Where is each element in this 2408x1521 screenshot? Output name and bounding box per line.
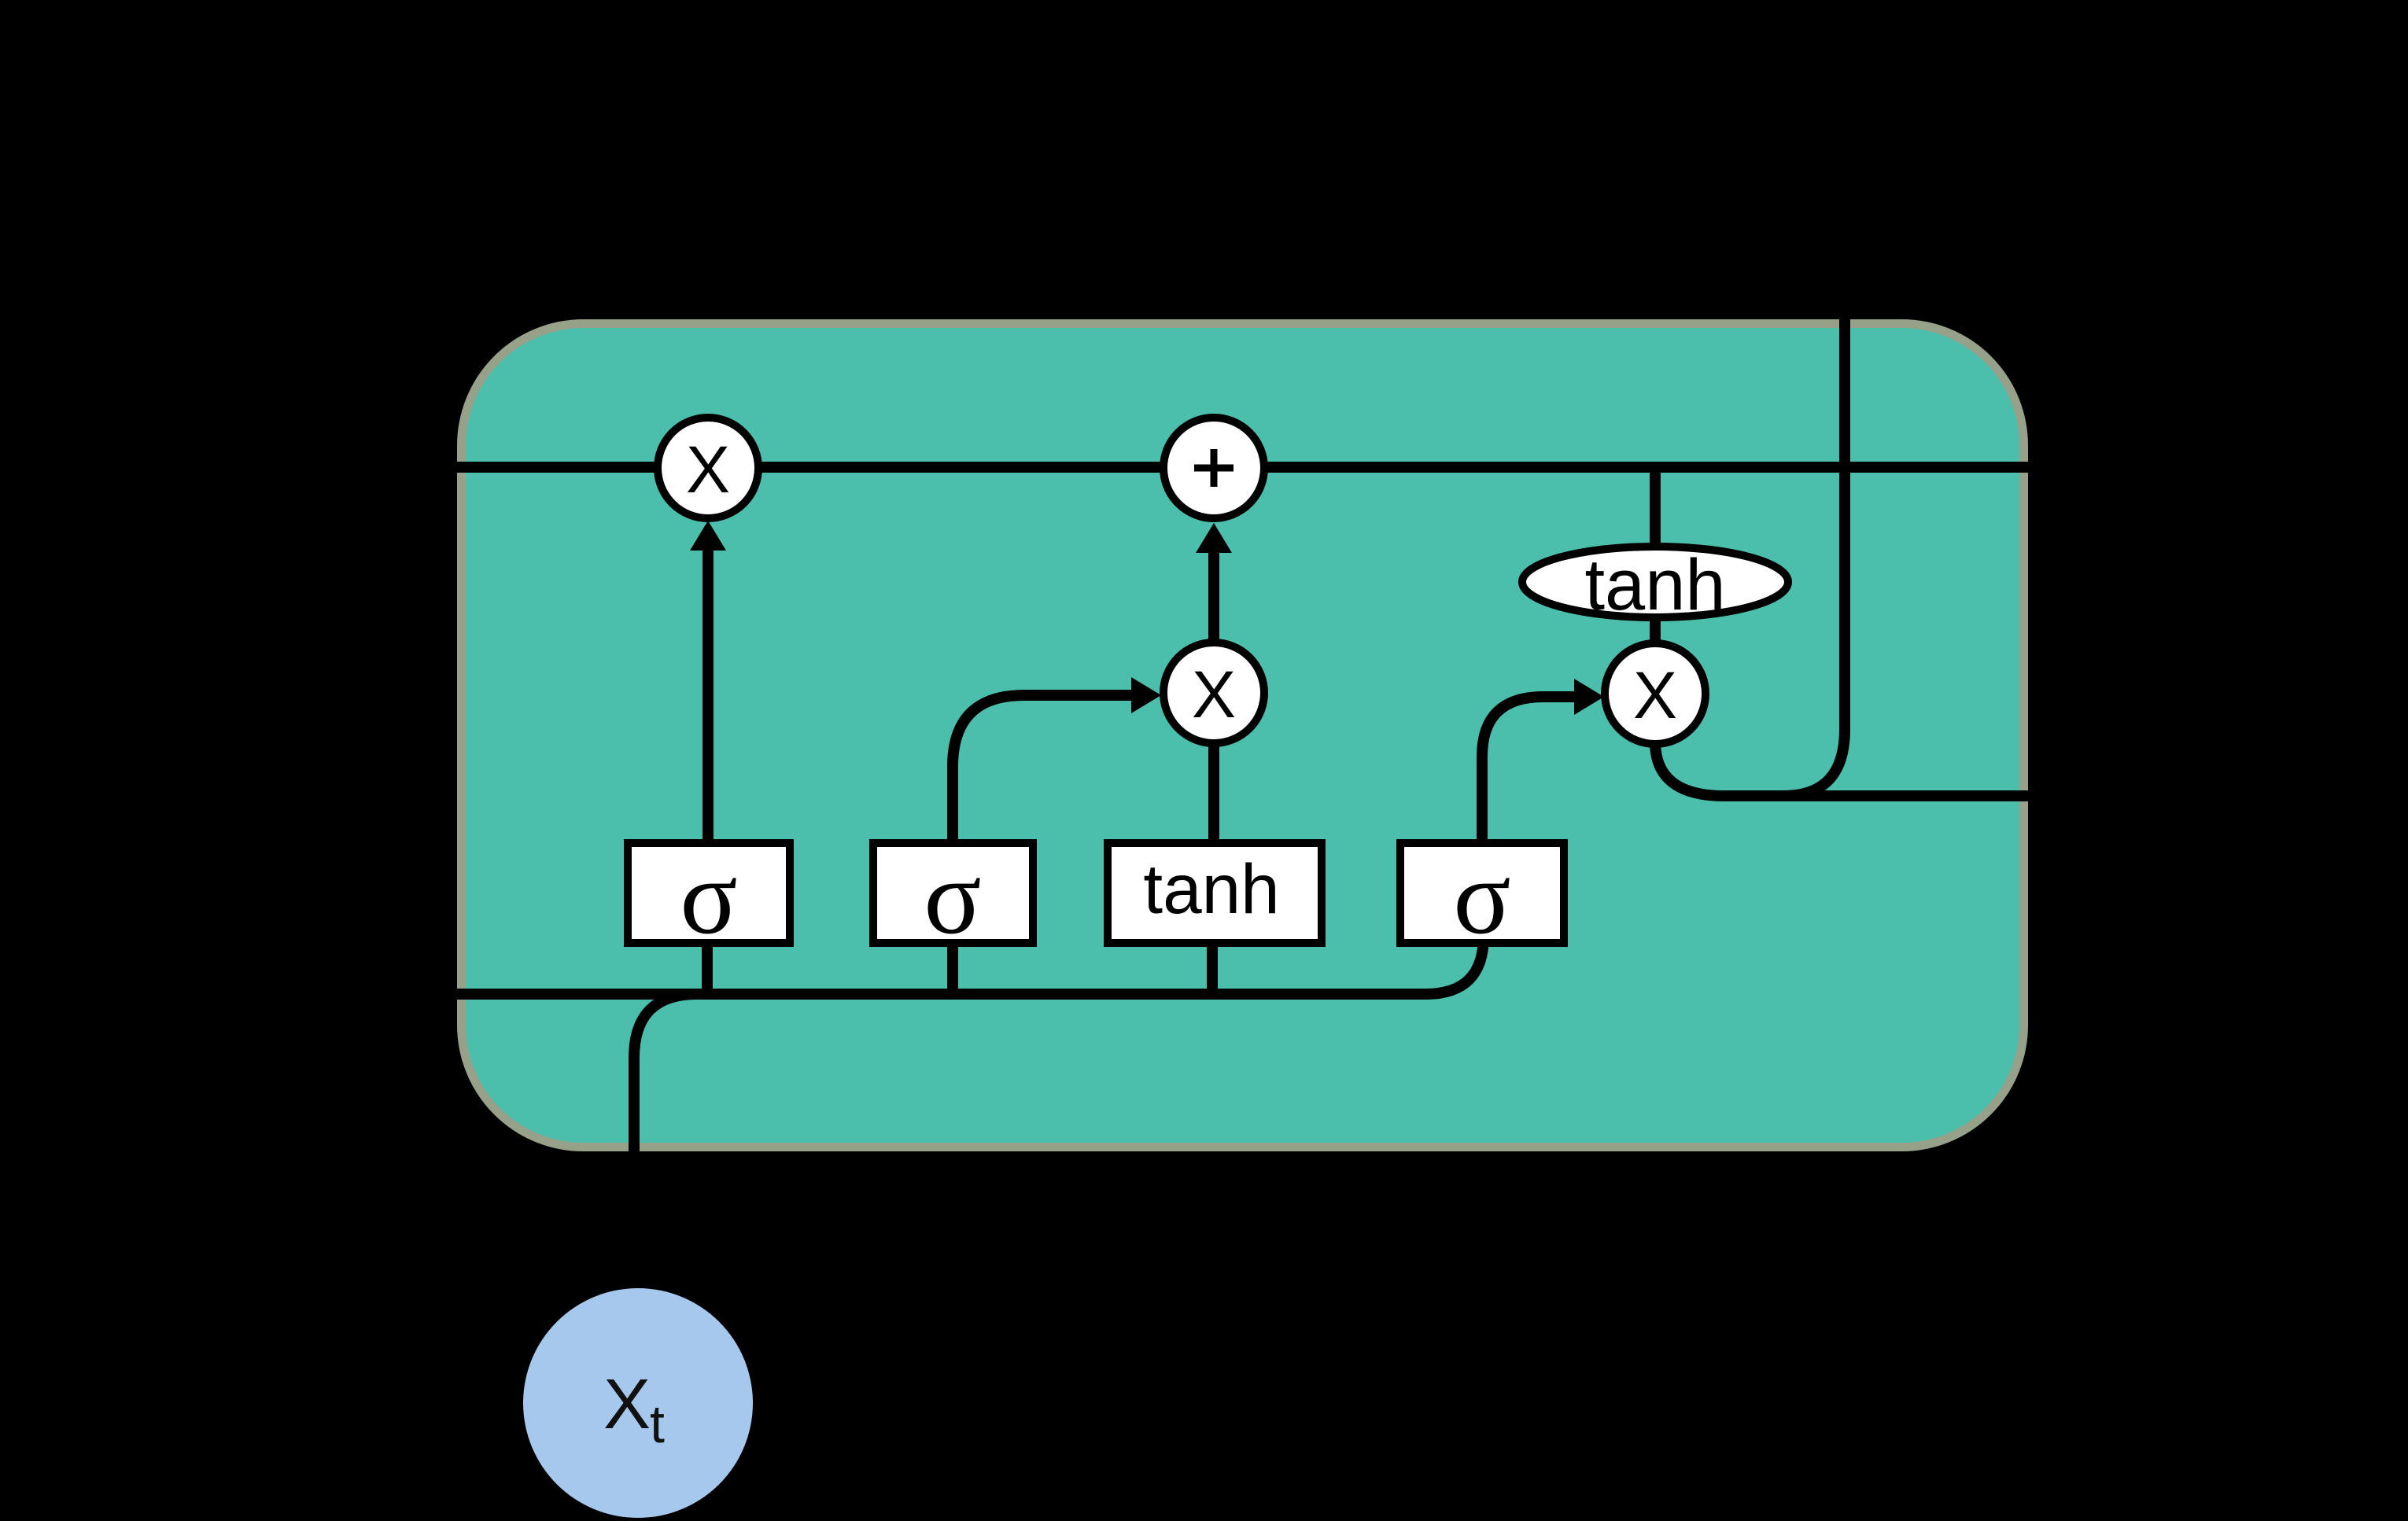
- wire: middle multiply to add arrow shaft: [1208, 553, 1219, 643]
- svg-text:X: X: [1633, 658, 1677, 732]
- gate: sigma 2 (input gate): [873, 843, 1033, 943]
- arrowhead into add: [1196, 523, 1232, 553]
- arrowhead into middle multiply: [1131, 677, 1161, 713]
- op: middle pointwise multiply: [1163, 643, 1264, 743]
- wire: tanh gate box to middle multiply stub: [1208, 742, 1219, 843]
- wire: x(t) input branch curving down out of the cell: [634, 994, 697, 1164]
- wire: C line down to tanh ellipse stub: [1650, 470, 1661, 546]
- wire: sigma2 curve to middle multiply: [953, 695, 1131, 841]
- node: x(t) input circle: [523, 1288, 753, 1518]
- wire: sigma3 curve to right multiply: [1482, 697, 1574, 841]
- svg-text:tanh: tanh: [1584, 545, 1725, 625]
- svg-text:t: t: [650, 1394, 665, 1454]
- op: pointwise add on C line: [1163, 418, 1264, 518]
- wire: tanh ellipse to right multiply stub: [1650, 620, 1661, 646]
- wire: cell state line C: [409, 462, 2061, 473]
- gate: tanh candidate: [1108, 843, 1322, 943]
- wire: tanh gate bottom stub: [1207, 943, 1218, 994]
- gate: sigma 3 (output gate): [1400, 843, 1564, 943]
- svg-text:σ: σ: [680, 838, 737, 956]
- gate: sigma 1 (forget gate): [628, 843, 790, 943]
- svg-text:X: X: [686, 433, 730, 506]
- wire: sigma1 to multiply arrow shaft: [702, 551, 714, 841]
- op: right pointwise multiply: [1605, 643, 1706, 744]
- wire: right multiply output down then right h(t): [1655, 742, 2061, 796]
- svg-text:tanh: tanh: [1143, 849, 1279, 928]
- svg-text:σ: σ: [924, 838, 981, 956]
- arrowhead into multiply X1: [690, 521, 726, 551]
- op: pointwise multiply X1 on C line: [658, 418, 758, 518]
- svg-text:σ: σ: [1453, 838, 1510, 956]
- wire: sigma1 bottom stub: [702, 943, 713, 994]
- arrowhead into right multiply: [1574, 679, 1604, 715]
- wire: bottom input line h(t-1) with curve up into sigma3: [409, 934, 1484, 994]
- svg-text:X: X: [1192, 657, 1236, 731]
- svg-text:X: X: [603, 1365, 651, 1444]
- op: tanh activation ellipse: [1522, 547, 1788, 617]
- wire: h(t) branch curving up to top output: [1783, 299, 1845, 796]
- LSTM cell body: [462, 324, 2024, 1147]
- wire: sigma2 bottom stub: [947, 943, 958, 994]
